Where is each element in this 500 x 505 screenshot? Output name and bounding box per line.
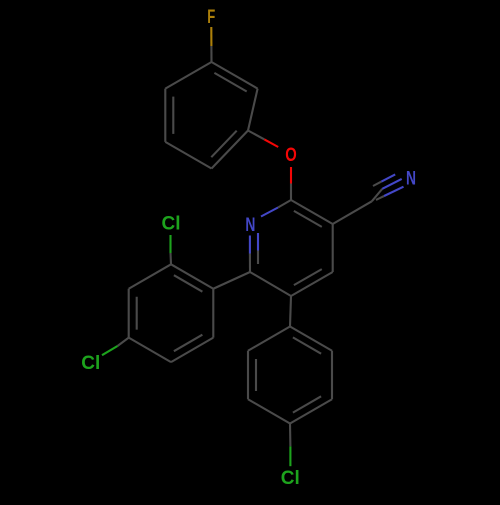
svg-text:N: N [406,169,416,190]
fluorophenyl ring: edge B-BL [165,142,211,169]
fluorophenyl ring: edge T-TR [212,62,258,89]
pyridine: inner double of C4-C5 [294,269,322,285]
chlorophenyl: inner double of BL3-TL3 [255,359,257,391]
biaryl bond C6-dichlorophenyl [213,272,250,289]
chlorophenyl: edge TL3-T3 [248,327,290,351]
chlorophenyl: edge BR3-B3 [290,399,332,423]
dichlorophenyl: inner double of C-D [174,335,203,352]
svg-text:F: F [207,7,215,28]
fluorophenyl ring: inner double of T-TR [214,73,246,92]
dichlorophenyl: edge F2-A [129,264,171,288]
pyridine: bond C6=N1 main, nitrogen half [249,236,251,254]
bond ringBR-O : carbon half [248,131,264,140]
dichlorophenyl: edge B-C [212,289,214,338]
chlorophenyl: edge BL3-TL3 [247,351,249,400]
bond B3-Cl3 : chlorine half [289,446,291,466]
fluorophenyl ring: inner double of BL-TL [172,97,174,134]
pyridine: bond C6=N1 inner, nitrogen half [257,233,259,251]
dichlorophenyl: inner double of A-B [174,275,203,292]
dichlorophenyl: edge A-B [171,264,213,288]
bond B3-Cl3 : carbon half [289,424,291,447]
bond C(ring top) to F : fluorine half [210,27,212,46]
nitrile triple main: carbon half [372,189,383,202]
svg-text:Cl: Cl [81,353,100,374]
nitrile: bond C3-Cnit [333,201,372,224]
bond C5-chlorophenyl [290,296,291,327]
dichlorophenyl: edge C-D [171,338,213,362]
chlorophenyl: edge T3-TR3 [290,327,332,351]
fluorophenyl ring: edge TR-BR [248,89,258,131]
bond O-C2 : oxygen half [290,167,292,184]
dichlorophenyl: edge E-F2 [128,289,130,338]
nitrile triple upper flank: nitrogen half [381,174,395,181]
bond E-Cl2 : carbon half [118,338,129,346]
nitrile triple lower flank: nitrogen half [384,187,403,196]
chlorophenyl: inner double of BR3-B3 [293,396,321,412]
bond A-Cl1 : chlorine half [169,235,171,253]
nitrile triple lower flank: carbon half [376,196,384,200]
fluorophenyl ring: inner double of BR-B [211,131,236,158]
pyridine: edge C2-C3 [291,200,333,224]
pyridine: inner double of C2-C3 [294,211,322,227]
svg-text:N: N [245,215,255,236]
nitrile triple main: nitrogen half [382,179,401,189]
svg-text:Cl: Cl [162,214,181,235]
pyridine: edge C3-C4 [332,224,334,272]
pyridine: edge C4-C5 [291,272,333,296]
svg-text:O: O [285,145,297,166]
pyridine: edge C5-C6 [250,272,291,296]
pyridine: bond C6=N1 inner, carbon half [257,251,259,265]
dichlorophenyl: edge D-E [129,338,171,362]
pyridine: bond N1-C2 nitrogen half [261,208,278,217]
chlorophenyl: edge B3-BL3 [248,399,290,423]
bond O-C2 : carbon half [290,184,292,201]
bond ringBR-O : oxygen half [264,139,278,147]
svg-text:Cl: Cl [281,468,300,489]
fluorophenyl ring: edge BL-TL [164,89,166,142]
bond E-Cl2 : chlorine half [102,346,118,355]
chlorophenyl: inner double of T3-TR3 [293,337,321,353]
fluorophenyl ring: edge TL-T [165,62,211,89]
chlorophenyl: edge TR3-BR3 [331,351,333,400]
bond C(ring top) to F : carbon half [210,46,212,62]
pyridine: bond C6=N1 main, carbon half [249,254,251,273]
fluorophenyl ring: edge BR-B [212,131,249,169]
nitrile triple upper flank: carbon half [373,182,381,186]
pyridine: bond N1-C2 carbon half [278,200,291,208]
dichlorophenyl: inner double of E-F2 [136,297,138,330]
bond A-Cl1 : carbon half [169,253,172,264]
